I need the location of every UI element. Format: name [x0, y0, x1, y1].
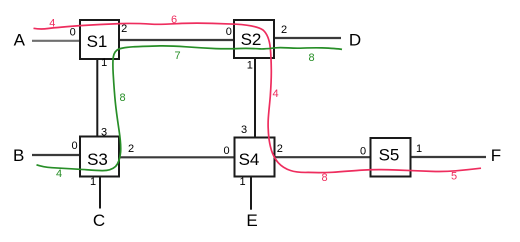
switch S1: [80, 20, 119, 59]
svg-text:7: 7: [174, 50, 180, 62]
svg-text:1: 1: [101, 57, 107, 69]
svg-text:2: 2: [281, 24, 287, 36]
wire S4 port2 to S5 port0: [275, 156, 371, 158]
svg-text:2: 2: [128, 143, 134, 155]
svg-text:0: 0: [226, 26, 232, 38]
svg-text:2: 2: [277, 143, 283, 155]
svg-text:S5: S5: [379, 146, 400, 165]
wire B to S3: [32, 154, 80, 156]
svg-text:0: 0: [71, 140, 77, 152]
svg-text:2: 2: [121, 23, 127, 35]
svg-text:4: 4: [272, 88, 278, 100]
svg-text:4: 4: [49, 17, 55, 29]
switch S3: [80, 137, 119, 177]
wire A to S1: [32, 40, 80, 42]
svg-text:S1: S1: [87, 32, 108, 51]
svg-text:F: F: [491, 146, 501, 165]
red flow path A to F via S1,S2,S4,S5: [34, 23, 482, 173]
svg-text:S3: S3: [87, 150, 108, 169]
svg-text:A: A: [14, 30, 26, 49]
wire S3 port1 to C: [99, 177, 101, 209]
wire S2 port2 to D: [274, 37, 341, 39]
svg-text:6: 6: [171, 14, 177, 26]
svg-text:8: 8: [119, 92, 125, 104]
svg-text:8: 8: [308, 52, 314, 64]
switch S4: [235, 138, 275, 177]
svg-text:B: B: [13, 146, 24, 165]
svg-text:4: 4: [56, 168, 62, 180]
svg-text:1: 1: [90, 176, 96, 188]
wire S1 port1 to S3 port3: [96, 59, 98, 137]
switch S2: [234, 20, 274, 58]
wire S3 port2 to S4 port0: [119, 156, 235, 158]
svg-text:8: 8: [321, 172, 327, 184]
svg-text:1: 1: [247, 60, 253, 72]
svg-text:S4: S4: [239, 150, 260, 169]
wire S4 port1 to E: [250, 177, 252, 210]
svg-text:E: E: [246, 211, 257, 230]
svg-text:C: C: [93, 211, 105, 230]
svg-text:D: D: [349, 31, 361, 50]
svg-text:5: 5: [451, 170, 457, 182]
svg-text:3: 3: [101, 127, 107, 139]
wire S2 port1 to S4 port3: [254, 58, 256, 138]
svg-text:0: 0: [360, 146, 366, 158]
svg-text:S2: S2: [241, 30, 262, 49]
wire S5 port1 to F: [411, 156, 487, 158]
svg-text:3: 3: [241, 124, 247, 136]
switch S5: [371, 138, 411, 177]
svg-text:0: 0: [223, 145, 229, 157]
svg-text:1: 1: [239, 176, 245, 188]
wire S1 port2 to S2 port0: [119, 39, 234, 41]
svg-text:0: 0: [70, 27, 76, 39]
svg-text:1: 1: [416, 143, 422, 155]
green flow path B to D via S3,S1,S2: [37, 46, 343, 171]
